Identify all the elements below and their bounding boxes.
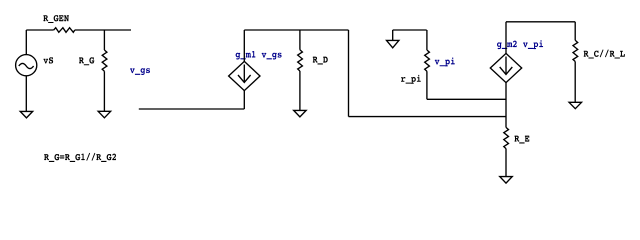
dependent source g_m1: [229, 61, 260, 90]
wire: [299, 71, 301, 110]
voltage source vS: [16, 55, 37, 76]
resistor R_G: [102, 50, 107, 71]
wire: [349, 116, 507, 118]
wire: [574, 22, 576, 41]
wire: [506, 21, 575, 23]
label v_pi: [435, 57, 455, 66]
resistor R_GEN: [54, 28, 75, 33]
resistor R_C//R_L: [573, 40, 578, 61]
label vS: [43, 57, 53, 63]
ground: [98, 111, 111, 118]
resistor R_E: [504, 127, 509, 148]
wire: [574, 62, 576, 103]
label R_D: [313, 57, 328, 65]
wire: [426, 71, 428, 99]
wire: [103, 71, 105, 111]
ground: [569, 102, 582, 108]
label g_m2 v_pi: [497, 40, 543, 49]
wire: [299, 30, 301, 50]
wire: [25, 76, 27, 111]
wire: [426, 30, 428, 50]
wire: [505, 22, 507, 54]
wire: [26, 29, 53, 31]
wire: [243, 91, 245, 109]
label r_pi: [401, 75, 421, 84]
label R_E: [514, 136, 529, 144]
wire: [348, 30, 350, 117]
label R_G=R_G1//R_G2: [44, 153, 116, 162]
wire: [243, 30, 245, 61]
label R_GEN: [43, 15, 69, 23]
wire: [393, 29, 427, 31]
wire: [244, 29, 348, 31]
wire: [25, 30, 27, 55]
ground: [294, 110, 307, 117]
ground: [20, 111, 33, 118]
label R_G: [79, 57, 94, 65]
resistor R_D: [298, 50, 303, 71]
wire: [505, 83, 507, 128]
wire: [75, 29, 131, 31]
label R_C//R_L: [584, 49, 625, 58]
wire: [103, 30, 105, 50]
wire: [505, 149, 507, 177]
ground: [500, 177, 513, 184]
wire: [427, 98, 506, 100]
wire: [139, 108, 245, 110]
label v_gs: [130, 68, 150, 75]
dependent source g_m2: [490, 53, 521, 82]
ground: [387, 30, 399, 48]
label g_m1 v_gs: [236, 51, 282, 60]
resistor r_pi: [425, 50, 430, 71]
